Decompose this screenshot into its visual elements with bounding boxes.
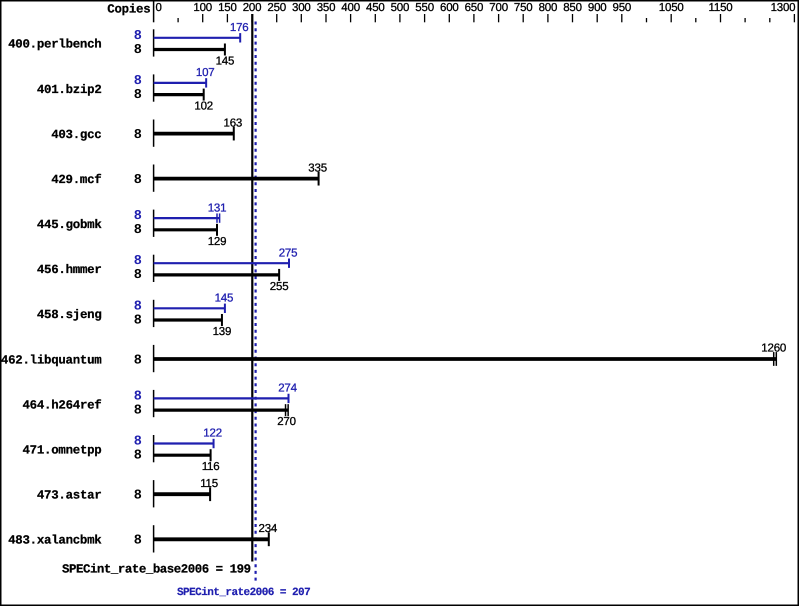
- svg-text:750: 750: [514, 2, 533, 14]
- svg-text:Copies: Copies: [107, 2, 150, 16]
- axis tick 650: [473, 14, 475, 22]
- base bar 400.perlbench = 145: [154, 44, 225, 56]
- row start tick 471.omnetpp: [153, 435, 155, 462]
- base bar 456.hmmer = 255: [154, 269, 280, 281]
- svg-text:1260: 1260: [761, 343, 786, 355]
- svg-text:8: 8: [134, 534, 142, 549]
- svg-text:429.mcf: 429.mcf: [51, 173, 101, 187]
- svg-text:8: 8: [134, 403, 142, 418]
- svg-text:400.perlbench: 400.perlbench: [8, 38, 101, 52]
- copies label 8 (peak) 458.sjeng: [134, 299, 142, 314]
- svg-text:900: 900: [588, 2, 607, 14]
- axis label 350: [317, 2, 336, 14]
- svg-text:275: 275: [279, 247, 298, 259]
- benchmark row 400.perlbench: [8, 38, 101, 52]
- svg-text:850: 850: [563, 2, 582, 14]
- svg-text:8: 8: [134, 353, 142, 368]
- peak value label 275: [279, 247, 298, 259]
- svg-text:SPECint_rate_base2006 = 199: SPECint_rate_base2006 = 199: [62, 563, 251, 577]
- svg-text:335: 335: [308, 162, 327, 174]
- base bar 445.gobmk = 129: [154, 224, 217, 236]
- axis label 900: [588, 2, 607, 14]
- svg-text:403.gcc: 403.gcc: [51, 128, 101, 142]
- axis label 850: [563, 2, 582, 14]
- row start tick 462.libquantum: [153, 345, 155, 372]
- svg-text:139: 139: [213, 326, 232, 338]
- copies label 8 (base) 401.bzip2: [134, 88, 142, 103]
- copies label 8 403.gcc: [134, 128, 142, 143]
- axis label 1300: [771, 2, 796, 14]
- svg-text:200: 200: [243, 2, 262, 14]
- svg-text:650: 650: [465, 2, 484, 14]
- benchmark row 456.hmmer: [37, 263, 102, 277]
- svg-text:176: 176: [230, 22, 249, 34]
- svg-text:8: 8: [134, 313, 142, 328]
- svg-text:8: 8: [134, 173, 142, 188]
- axis label 500: [391, 2, 410, 14]
- benchmark row 445.gobmk: [37, 218, 102, 232]
- axis minor tick 1250: [769, 18, 771, 22]
- bar 473.astar = 115: [154, 487, 211, 501]
- bar 429.mcf = 335: [154, 172, 319, 186]
- reference line rate2006 = 207 (dotted): [255, 22, 257, 584]
- axis label 300: [292, 2, 311, 14]
- copies label 8 (peak) 401.bzip2: [134, 74, 142, 89]
- axis tick 1150: [720, 14, 722, 22]
- benchmark row 429.mcf: [51, 173, 101, 187]
- svg-text:8: 8: [134, 299, 142, 314]
- svg-text:8: 8: [134, 489, 142, 504]
- value label 163: [224, 117, 243, 129]
- copies label 8 (base) 458.sjeng: [134, 313, 142, 328]
- svg-text:8: 8: [134, 74, 142, 89]
- copies label 8 (peak) 471.omnetpp: [134, 435, 142, 450]
- svg-text:400: 400: [341, 2, 360, 14]
- summary SPECint_rate2006: [177, 587, 310, 599]
- svg-text:116: 116: [202, 461, 220, 473]
- axis minor tick 1000: [646, 18, 648, 22]
- copies label 8 429.mcf: [134, 173, 142, 188]
- axis minor tick 1200: [744, 18, 746, 22]
- benchmark row 458.sjeng: [37, 308, 102, 322]
- base bar 471.omnetpp = 116: [154, 449, 211, 461]
- axis label 1050: [659, 2, 684, 14]
- copies label 8 (peak) 456.hmmer: [134, 254, 142, 269]
- peak value label 131: [208, 202, 227, 214]
- axis label 950: [613, 2, 632, 14]
- row start tick 473.astar: [153, 480, 155, 507]
- svg-text:700: 700: [489, 2, 508, 14]
- svg-text:163: 163: [224, 117, 243, 129]
- peak value label 107: [196, 67, 215, 79]
- benchmark row 464.h264ref: [22, 398, 101, 412]
- axis tick 350: [325, 14, 327, 22]
- base value label 116: [202, 461, 220, 473]
- copies label 8 462.libquantum: [134, 353, 142, 368]
- axis minor tick 50: [177, 18, 179, 22]
- svg-text:800: 800: [539, 2, 558, 14]
- benchmark row 471.omnetpp: [22, 443, 101, 457]
- svg-text:462.libquantum: 462.libquantum: [1, 353, 102, 367]
- svg-text:600: 600: [440, 2, 459, 14]
- axis tick 150: [226, 14, 228, 22]
- axis tick 500: [399, 14, 401, 22]
- axis tick 450: [374, 14, 376, 22]
- svg-text:145: 145: [216, 56, 235, 68]
- svg-text:8: 8: [134, 128, 142, 143]
- row start tick 429.mcf: [153, 165, 155, 192]
- svg-text:450: 450: [366, 2, 385, 14]
- header label Copies: [107, 2, 150, 16]
- svg-text:445.gobmk: 445.gobmk: [37, 218, 102, 232]
- svg-text:129: 129: [208, 236, 227, 248]
- base value label 145: [216, 56, 235, 68]
- row start tick 400.perlbench: [153, 29, 155, 56]
- row start tick 403.gcc: [153, 120, 155, 147]
- axis tick 1300: [793, 14, 795, 22]
- axis tick 400: [350, 14, 352, 22]
- svg-text:100: 100: [193, 2, 212, 14]
- peak value label 145: [215, 293, 234, 305]
- axis tick 300: [300, 14, 302, 22]
- axis label 700: [489, 2, 508, 14]
- axis tick 200: [251, 14, 253, 22]
- reference line base2006 = 199: [251, 14, 253, 562]
- svg-text:255: 255: [270, 281, 289, 293]
- axis label 1150: [709, 2, 733, 14]
- axis tick 800: [547, 14, 549, 22]
- row start tick 445.gobmk: [153, 210, 155, 237]
- svg-text:107: 107: [196, 67, 215, 79]
- peak bar 401.bzip2 = 107: [154, 78, 207, 87]
- axis label 100: [193, 2, 212, 14]
- peak value label 122: [203, 428, 222, 440]
- axis label 450: [366, 2, 385, 14]
- svg-text:456.hmmer: 456.hmmer: [37, 263, 102, 277]
- axis label 200: [243, 2, 262, 14]
- row start tick 456.hmmer: [153, 255, 155, 282]
- svg-text:270: 270: [277, 416, 296, 428]
- svg-text:SPECint_rate2006 = 207: SPECint_rate2006 = 207: [177, 587, 310, 599]
- peak bar 471.omnetpp = 122: [154, 439, 214, 448]
- bar 403.gcc = 163: [154, 127, 234, 141]
- row start tick 458.sjeng: [153, 300, 155, 327]
- svg-text:102: 102: [194, 101, 213, 113]
- copies label 8 483.xalancbmk: [134, 534, 142, 549]
- svg-text:145: 145: [215, 293, 234, 305]
- svg-text:300: 300: [292, 2, 311, 14]
- peak bar 456.hmmer = 275: [154, 259, 289, 268]
- axis label 750: [514, 2, 533, 14]
- axis tick 100: [202, 14, 204, 22]
- axis label 0: [156, 2, 162, 14]
- peak bar 445.gobmk = 131: [154, 213, 220, 222]
- svg-text:401.bzip2: 401.bzip2: [37, 83, 102, 97]
- axis label 600: [440, 2, 459, 14]
- base value label 129: [208, 236, 227, 248]
- svg-text:8: 8: [134, 389, 142, 404]
- svg-text:464.h264ref: 464.h264ref: [22, 398, 101, 412]
- benchmark row 462.libquantum: [1, 353, 102, 367]
- axis label 250: [267, 2, 286, 14]
- svg-text:483.xalancbmk: 483.xalancbmk: [8, 534, 102, 548]
- axis label 800: [539, 2, 558, 14]
- bar 462.libquantum = 1260: [154, 352, 777, 366]
- svg-text:1150: 1150: [709, 2, 733, 14]
- axis tick 250: [276, 14, 278, 22]
- svg-text:8: 8: [134, 43, 142, 58]
- axis label 550: [415, 2, 434, 14]
- value label 115: [200, 478, 218, 490]
- svg-text:8: 8: [134, 268, 142, 283]
- svg-text:250: 250: [267, 2, 286, 14]
- axis tick 750: [522, 14, 524, 22]
- svg-text:8: 8: [134, 254, 142, 269]
- copies label 8 (base) 471.omnetpp: [134, 449, 142, 464]
- benchmark row 473.astar: [37, 489, 102, 503]
- axis label 400: [341, 2, 360, 14]
- svg-text:550: 550: [415, 2, 434, 14]
- axis tick 700: [498, 14, 500, 22]
- svg-text:274: 274: [278, 383, 297, 395]
- axis tick 600: [448, 14, 450, 22]
- copies label 8 (peak) 445.gobmk: [134, 209, 142, 224]
- svg-text:8: 8: [134, 449, 142, 464]
- axis tick 900: [596, 14, 598, 22]
- svg-text:8: 8: [134, 435, 142, 450]
- svg-text:473.astar: 473.astar: [37, 489, 102, 503]
- base bar 401.bzip2 = 102: [154, 89, 204, 101]
- svg-text:115: 115: [200, 478, 218, 490]
- copies label 8 (peak) 464.h264ref: [134, 389, 142, 404]
- summary SPECint_rate_base2006: [62, 563, 251, 577]
- value label 234: [259, 523, 278, 535]
- row start tick 464.h264ref: [153, 390, 155, 417]
- row start tick 401.bzip2: [153, 74, 155, 101]
- svg-text:234: 234: [259, 523, 278, 535]
- svg-text:950: 950: [613, 2, 632, 14]
- svg-text:500: 500: [391, 2, 410, 14]
- axis tick 850: [572, 14, 574, 22]
- peak value label 176: [230, 22, 249, 34]
- peak bar 464.h264ref = 274: [154, 394, 289, 403]
- row start tick 483.xalancbmk: [153, 525, 155, 552]
- value label 1260: [761, 343, 786, 355]
- axis label 650: [465, 2, 484, 14]
- base bar 464.h264ref = 270: [154, 404, 289, 416]
- peak bar 458.sjeng = 145: [154, 304, 225, 313]
- svg-text:122: 122: [203, 428, 222, 440]
- bar 483.xalancbmk = 234: [154, 532, 269, 546]
- copies label 8 (base) 464.h264ref: [134, 403, 142, 418]
- copies label 8 473.astar: [134, 489, 142, 504]
- copies label 8 (peak) 400.perlbench: [134, 29, 142, 44]
- peak bar 400.perlbench = 176: [154, 33, 241, 42]
- benchmark row 401.bzip2: [37, 83, 102, 97]
- base value label 255: [270, 281, 289, 293]
- axis tick 1050: [670, 14, 672, 22]
- svg-text:350: 350: [317, 2, 336, 14]
- svg-text:8: 8: [134, 223, 142, 238]
- copies label 8 (base) 456.hmmer: [134, 268, 142, 283]
- axis tick 950: [621, 14, 623, 22]
- base value label 139: [213, 326, 232, 338]
- copies label 8 (base) 445.gobmk: [134, 223, 142, 238]
- svg-text:1050: 1050: [659, 2, 684, 14]
- svg-text:0: 0: [156, 2, 162, 14]
- axis label 150: [218, 2, 237, 14]
- peak value label 274: [278, 383, 297, 395]
- svg-text:8: 8: [134, 209, 142, 224]
- base value label 102: [194, 101, 213, 113]
- axis minor tick 1100: [695, 18, 697, 22]
- benchmark row 483.xalancbmk: [8, 534, 102, 548]
- svg-text:150: 150: [218, 2, 237, 14]
- svg-text:458.sjeng: 458.sjeng: [37, 308, 102, 322]
- copies label 8 (base) 400.perlbench: [134, 43, 142, 58]
- svg-text:1300: 1300: [771, 2, 796, 14]
- svg-text:131: 131: [208, 202, 227, 214]
- base value label 270: [277, 416, 296, 428]
- svg-text:8: 8: [134, 88, 142, 103]
- base bar 458.sjeng = 139: [154, 314, 222, 326]
- svg-text:8: 8: [134, 29, 142, 44]
- axis origin line x=0: [153, 2, 155, 23]
- axis tick 550: [424, 14, 426, 22]
- value label 335: [308, 162, 327, 174]
- svg-text:471.omnetpp: 471.omnetpp: [22, 443, 101, 457]
- benchmark row 403.gcc: [51, 128, 101, 142]
